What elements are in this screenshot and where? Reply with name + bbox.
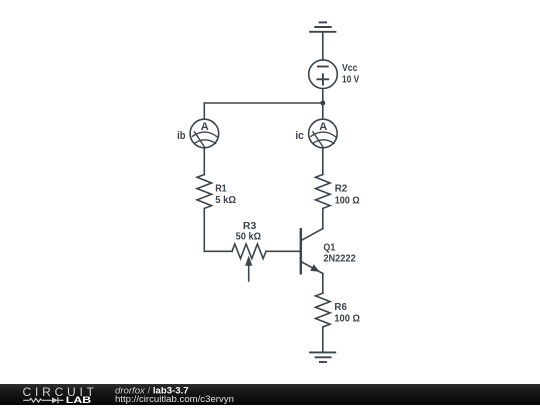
node A junction dot: [320, 101, 325, 106]
svg-text:50 kΩ: 50 kΩ: [236, 231, 261, 243]
logo schematic squiggle with diode: [23, 397, 63, 403]
svg-text:Vcc: Vcc: [342, 62, 358, 74]
resistor R3 (potentiometer): [232, 244, 266, 281]
wire node A to left branch: [204, 102, 322, 104]
wire ammeter ib to R1: [203, 149, 205, 175]
wire corner to R3: [204, 250, 232, 252]
wire down to ammeter ib: [203, 103, 205, 118]
svg-text:http://circuitlab.com/c3ervyn: http://circuitlab.com/c3ervyn: [115, 394, 234, 405]
ground GND1 (top, flipped): [310, 22, 335, 31]
wire node A down to ammeter ic: [322, 103, 324, 118]
svg-text:100 Ω: 100 Ω: [335, 194, 360, 206]
wire R3 to base of Q1: [266, 250, 300, 252]
resistor R6: [316, 293, 331, 327]
svg-text:ib: ib: [177, 130, 186, 142]
svg-text:LAB: LAB: [66, 395, 92, 405]
wire emitter to R6: [322, 274, 324, 294]
svg-text:10 V: 10 V: [342, 74, 359, 86]
resistor R2: [316, 175, 331, 209]
svg-text:5 kΩ: 5 kΩ: [215, 194, 236, 206]
svg-text:ic: ic: [295, 130, 303, 142]
svg-text:2N2222: 2N2222: [323, 252, 355, 264]
svg-text:R1: R1: [215, 183, 227, 195]
transistor Q1: [301, 229, 323, 274]
svg-text:R6: R6: [334, 301, 347, 313]
svg-text:100 Ω: 100 Ω: [334, 312, 360, 324]
wire Vcc to node A: [322, 89, 324, 103]
svg-text:A: A: [319, 121, 327, 133]
svg-text:R2: R2: [335, 183, 348, 195]
svg-text:A: A: [201, 121, 209, 133]
wire ground to Vcc: [322, 32, 324, 60]
ammeter ib: [190, 119, 219, 148]
footer bar: [0, 384, 540, 405]
resistor R1: [197, 175, 212, 209]
wire collector to R2: [322, 208, 324, 228]
wire ammeter ic to R2: [322, 149, 324, 175]
ammeter ic: [309, 119, 338, 148]
wire R6 to ground: [322, 327, 324, 352]
ground GND2 (bottom): [310, 352, 335, 362]
voltage source Vcc: [309, 60, 338, 89]
wire R1 to corner: [203, 208, 205, 251]
